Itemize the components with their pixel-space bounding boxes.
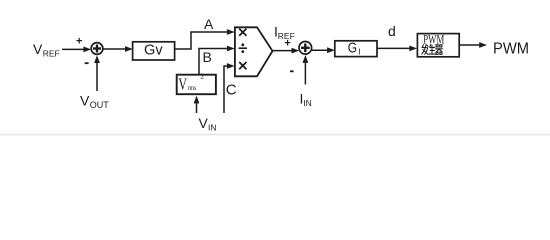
char fa (develop) (422, 45, 428, 55)
wire VOUT up into summer S1 (96, 61, 98, 91)
svg-text:G: G (348, 41, 357, 57)
arrowhead VIN into Vrms2 (194, 96, 200, 104)
svg-text:+: + (284, 38, 290, 50)
wire VIN up into Vrms2 block (196, 102, 198, 113)
arrowhead into GI (327, 47, 335, 53)
svg-text:IN: IN (303, 98, 312, 108)
wire S2 to block GI (312, 49, 329, 51)
wire VREF to summer S1 (62, 48, 85, 50)
wire B from Vrms2 block up to divider (199, 49, 228, 75)
wire C from VIN up to divider (224, 66, 228, 113)
block PWM generator box (417, 34, 459, 57)
arrowhead B into divider (227, 46, 235, 52)
arrowhead C into divider (227, 63, 235, 69)
block Vrms2 box (177, 75, 216, 95)
svg-text:Gv: Gv (144, 42, 163, 58)
summer S1 plus cross (93, 45, 101, 53)
wire Gv to node A (up and right) (175, 32, 228, 49)
wire divider output to summer S2 (273, 50, 295, 52)
svg-text:+: + (76, 36, 82, 48)
multiply sign top (239, 29, 246, 36)
multiplier-divider block (235, 27, 273, 76)
arrowhead PWM output (479, 42, 487, 48)
summer S2 circle (299, 42, 312, 55)
arrowhead into S1 from VOUT (94, 55, 100, 63)
svg-text:d: d (388, 23, 396, 39)
minus sign at S2 input (290, 70, 294, 72)
minus sign at S1 input (85, 62, 89, 64)
arrowhead into Gv (125, 46, 133, 52)
svg-text:A: A (204, 16, 214, 32)
svg-text:V: V (178, 75, 187, 94)
svg-text:IN: IN (208, 123, 217, 133)
faint horizontal rule near bottom (0, 134, 550, 136)
svg-text:V: V (199, 115, 209, 131)
svg-text:B: B (203, 49, 212, 65)
arrowhead A into divider (227, 29, 235, 35)
svg-text:REF: REF (43, 49, 60, 59)
svg-text:V: V (33, 41, 43, 57)
svg-text:rms: rms (188, 84, 197, 92)
arrowhead IREF into S2 (292, 48, 300, 54)
svg-text:V: V (80, 93, 90, 109)
summer S1 circle (91, 43, 103, 55)
char sheng (generate) (429, 44, 435, 54)
divide sign middle (239, 47, 247, 49)
wire IIN up into summer S2 (304, 62, 306, 85)
Vrms2 label (178, 72, 204, 94)
summer S2 plus cross (301, 44, 310, 53)
wire GI to PWM generator (signal d) (377, 47, 411, 49)
svg-text:I: I (358, 47, 360, 56)
wire PWM generator to output (460, 44, 481, 46)
wire S1 to block Gv (104, 48, 128, 50)
svg-text:PWM: PWM (493, 40, 529, 57)
svg-text:C: C (226, 81, 237, 98)
svg-text:OUT: OUT (90, 100, 110, 110)
multiply sign bottom (239, 62, 246, 69)
block Gv box (133, 42, 175, 60)
svg-text:2: 2 (200, 72, 204, 81)
block GI box (335, 41, 377, 57)
arrowhead d into PWM generator (409, 46, 417, 52)
arrowhead IIN into S2 (303, 55, 309, 63)
PWM generator label line 2 (Chinese: fa sheng qi) drawn as strokes (422, 44, 443, 54)
char qi (device) (436, 45, 443, 54)
arrowhead into S1 from VREF (83, 47, 91, 53)
